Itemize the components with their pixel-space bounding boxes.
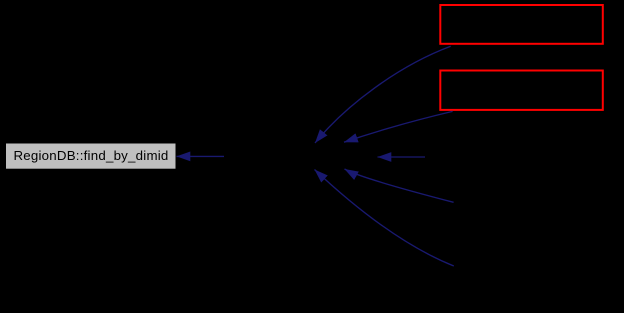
node: RegionDB::find_by_dimid (current, grey filled) [6, 144, 176, 169]
edge: hidden node lower right -> central node [345, 169, 454, 202]
edge: hidden node right -> central node (horizontal) [378, 156, 426, 158]
edge: hidden node bottom -> central node [315, 170, 454, 267]
node: truncated caller 2 (red box, label invisible) [440, 71, 603, 110]
edge: red box 1 -> central node [315, 46, 451, 143]
node: truncated caller 1 (red box, label invisible) [440, 5, 603, 44]
svg-text:RegionDB::find_by_dimid: RegionDB::find_by_dimid [13, 148, 168, 163]
edge: central node -> RegionDB::find_by_dimid [177, 155, 225, 157]
edge: red box 2 -> central node [344, 111, 453, 142]
